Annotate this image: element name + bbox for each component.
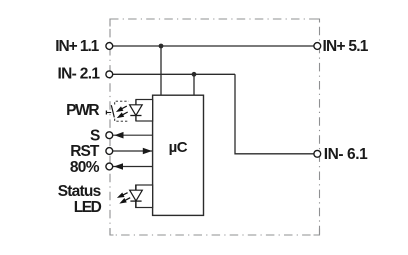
wire junction to uC top <box>160 46 162 95</box>
node junction on IN+ wire <box>159 44 164 49</box>
terminal RST <box>106 148 113 155</box>
terminal IN- 6.1 <box>314 150 321 157</box>
PWR light emission arrow 2 <box>117 112 125 118</box>
svg-text:PWR: PWR <box>66 102 100 119</box>
svg-text:S: S <box>90 128 100 145</box>
wire RST to uC <box>113 150 153 152</box>
svg-text:Status: Status <box>58 183 102 200</box>
svg-text:LED: LED <box>74 199 102 216</box>
wire IN- down and right to IN- 6.1 <box>235 74 314 154</box>
svg-text:µC: µC <box>169 139 188 156</box>
PWR light emission arrow 1 <box>116 106 124 112</box>
PWR LED diode D1 <box>130 105 143 116</box>
PWR LED block <box>136 100 153 122</box>
module boundary (dash-dot frame) <box>110 19 320 235</box>
PWR front tick <box>106 112 111 114</box>
terminal IN+ 1.1 <box>106 43 113 50</box>
svg-text:RST: RST <box>70 143 100 160</box>
wire S to uC <box>113 134 153 136</box>
terminal 80% <box>106 163 113 170</box>
svg-text:IN- 6.1: IN- 6.1 <box>324 146 368 163</box>
svg-text:IN- 2.1: IN- 2.1 <box>58 66 101 83</box>
svg-text:80%: 80% <box>70 159 100 176</box>
arrow on 80% wire (points left) <box>114 163 123 170</box>
wire junction to uC top <box>193 74 195 95</box>
wire 80% to uC <box>113 166 153 168</box>
boundary corner joins <box>110 19 320 235</box>
svg-text:IN+ 1.1: IN+ 1.1 <box>55 38 99 55</box>
terminal IN+ 5.1 <box>314 43 321 50</box>
PWR light guide diagonal <box>111 105 114 117</box>
Status LED diode D2 <box>130 190 143 201</box>
wire IN- 2.1 horizontal <box>113 73 235 75</box>
terminal IN- 2.1 <box>106 71 113 78</box>
svg-text:IN+ 5.1: IN+ 5.1 <box>323 38 369 55</box>
wire IN+ 1.1 to IN+ 5.1 <box>113 45 314 47</box>
arrow on S wire (points left) <box>114 132 123 139</box>
arrow on RST wire (points right) <box>143 148 152 155</box>
Status light emission arrow 1 <box>117 193 125 198</box>
PWR dashed optical box <box>115 101 129 104</box>
terminal S <box>106 132 113 139</box>
node junction on IN- wire <box>192 72 197 77</box>
op-amp block: microcontroller uC <box>153 95 204 215</box>
Status LED block <box>136 185 153 208</box>
Status light emission arrow 2 <box>119 198 127 204</box>
